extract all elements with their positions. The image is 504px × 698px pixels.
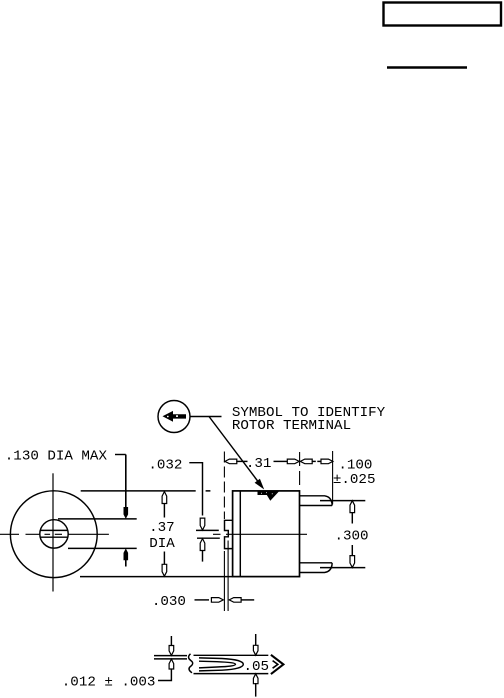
underline top right <box>387 66 467 68</box>
dim .37 upper arrow <box>162 492 167 504</box>
svg-text:.030: .030 <box>152 594 186 610</box>
svg-text:±.025: ±.025 <box>333 472 376 488</box>
rotor slot lower chord <box>40 536 68 538</box>
dim .100 left tail <box>312 460 316 462</box>
arrow .032 up shaft <box>202 550 204 562</box>
leader .130 vertical shaft <box>125 455 127 511</box>
dim .100 left arrow <box>300 459 312 464</box>
tip chevron outer <box>271 655 284 674</box>
body outline <box>233 491 300 577</box>
dim .05 upper shaft <box>255 634 257 649</box>
dim .030 right arrow <box>229 598 241 603</box>
arrow .032 up <box>200 539 205 551</box>
extension line rotor bottom <box>68 547 137 549</box>
dim .31 right line <box>274 460 288 462</box>
svg-text:.130 DIA MAX: .130 DIA MAX <box>5 448 108 464</box>
dim .030 left arrow <box>211 598 223 603</box>
end view rotor circle <box>40 520 68 548</box>
dim .012 upper arrow <box>169 646 174 656</box>
svg-text:.012 ± .003: .012 ± .003 <box>62 674 156 690</box>
dim .300 upper arrow <box>350 501 355 513</box>
horizontal centerline end view <box>0 533 109 535</box>
dim .37 lower shaft <box>163 552 165 567</box>
pin detail blade bottom edge <box>194 673 269 675</box>
dim .31 right arrow <box>287 459 299 464</box>
hub extension dashed above <box>223 452 225 520</box>
svg-text:.31: .31 <box>246 456 272 472</box>
dim .012 upper shaft <box>170 636 172 647</box>
rotor terminal mark on body <box>258 491 280 500</box>
dim .31 left arrow <box>225 459 237 464</box>
hub face extension below <box>223 551 225 611</box>
svg-text:.300: .300 <box>335 529 369 545</box>
slot extension lower <box>197 537 220 539</box>
body right extension above <box>299 452 301 486</box>
svg-text:.05: .05 <box>244 659 270 675</box>
dim .05 lower shaft <box>255 683 257 697</box>
dim .100 right arrow <box>321 459 333 464</box>
extension pin centers top <box>320 500 365 502</box>
leader .032 <box>189 463 202 516</box>
dim .300 lower shaft <box>351 545 353 557</box>
centerline side view <box>213 533 307 535</box>
top pin outline <box>300 496 332 506</box>
extension line rotor top <box>58 518 137 520</box>
rotor symbol circle <box>158 401 190 433</box>
end view outer circle <box>10 491 97 578</box>
dim .300 lower arrow <box>350 556 355 568</box>
slot bottom extension below <box>227 541 229 612</box>
projection line body top <box>81 490 211 492</box>
arrow .032 down <box>200 518 205 530</box>
rotor symbol arrow inside circle <box>163 411 187 422</box>
pin detail blade top edge <box>194 654 269 656</box>
projection line body bottom <box>80 576 232 578</box>
dim .300 upper shaft <box>351 512 353 524</box>
dim .012 lower arrow <box>169 659 174 669</box>
dim .31 left line <box>236 460 247 462</box>
nib outer taper <box>199 658 243 671</box>
dim .37 upper shaft <box>163 503 165 518</box>
bottom pin outline <box>300 563 332 573</box>
dim .05 upper arrow <box>253 645 258 655</box>
leader line circle to text <box>190 416 221 418</box>
dim .012 leader <box>158 669 171 681</box>
leader .130 horizontal <box>115 454 126 456</box>
svg-text:ROTOR TERMINAL: ROTOR TERMINAL <box>232 418 351 434</box>
dim .030 left leader <box>195 599 210 601</box>
dim .05 lower arrow <box>253 674 258 684</box>
pin detail thin blade top <box>154 655 187 657</box>
nib inner taper <box>199 661 236 668</box>
svg-text:.032: .032 <box>148 458 182 474</box>
pin end extension <box>332 451 334 504</box>
arrow .130 up shaft <box>125 560 127 567</box>
break squiggle <box>189 654 193 673</box>
tip chevron inner <box>273 661 278 669</box>
pin detail thin blade bottom <box>154 658 187 660</box>
body inner line <box>239 491 241 577</box>
rotor slot upper chord <box>40 529 68 531</box>
arrow .130 up <box>124 548 129 560</box>
dim .030 right tail <box>241 599 255 601</box>
dim .37 lower arrow <box>162 564 167 576</box>
slot extension upper <box>196 529 219 531</box>
vertical centerline end view <box>52 473 54 591</box>
rotor hub profile <box>225 520 233 548</box>
diagonal leader to rotor terminal mark <box>209 417 262 487</box>
extension pin centers bottom <box>320 567 365 569</box>
title block box top right <box>384 3 502 26</box>
dim .100 right tail <box>317 460 321 462</box>
svg-text:DIA: DIA <box>149 536 175 552</box>
svg-text:.37: .37 <box>149 520 175 536</box>
leader arrowhead <box>255 479 265 490</box>
arrow .130 down <box>124 507 129 519</box>
